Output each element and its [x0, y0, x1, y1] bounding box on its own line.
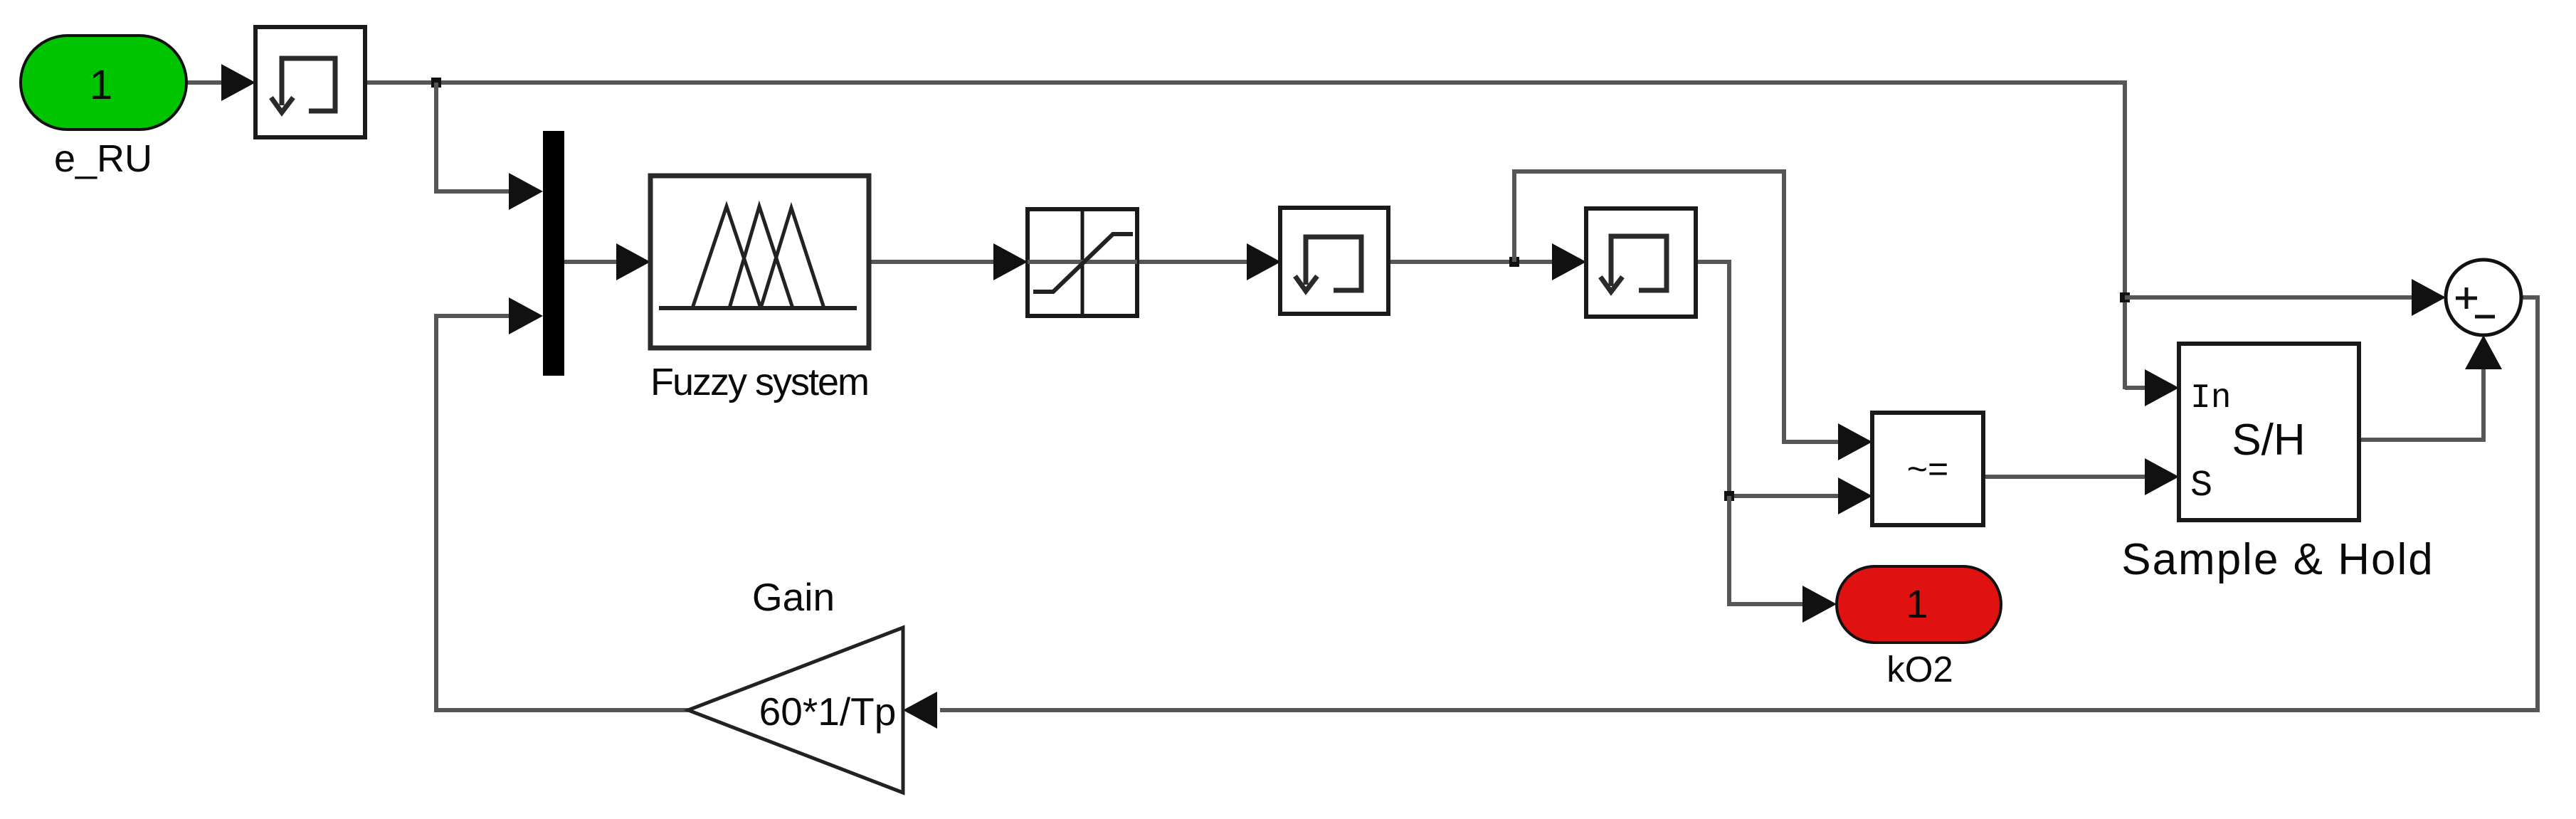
- wire: Sum output right, down and feedback to Gain input: [903, 297, 2538, 729]
- label Fuzzy system: [650, 361, 868, 403]
- wire: Gain output to Mux input 2: [436, 297, 688, 710]
- wire: Memory2 output to Memory3: [1388, 243, 1586, 280]
- node: junction on Memory3 output line: [1724, 491, 1734, 501]
- wire: e_RU output to Memory1: [185, 64, 255, 101]
- input port e_RU (green oval): [21, 36, 186, 130]
- svg-text:e_RU: e_RU: [54, 137, 152, 180]
- svg-text:Sample & Hold: Sample & Hold: [2121, 535, 2434, 584]
- svg-text:~=: ~=: [1907, 449, 1948, 489]
- svg-text:S: S: [2190, 465, 2212, 507]
- svg-text:60*1/Tp: 60*1/Tp: [759, 689, 897, 734]
- label Sample & Hold: [2121, 535, 2434, 584]
- wire: branch up over Memory3 to Relational Operator input 1: [1514, 171, 1872, 460]
- label Gain: [752, 575, 835, 619]
- wire: Saturation output to Memory2: [1137, 243, 1281, 280]
- wire: S/H output up to Sum minus input: [2359, 335, 2502, 440]
- label e_RU: [54, 137, 152, 180]
- block Saturation: [1028, 209, 1137, 316]
- wire: Mux output to Fuzzy system: [564, 243, 650, 280]
- svg-text:1: 1: [1906, 581, 1928, 626]
- label kO2: [1886, 649, 1953, 689]
- svg-text:1: 1: [90, 62, 112, 108]
- wire: Relational Operator output to S/H S input: [1983, 458, 2179, 495]
- mux: [543, 131, 564, 376]
- wire: Fuzzy system output to Saturation: [869, 243, 1028, 280]
- wire: junction to Sum plus input: [2125, 279, 2446, 316]
- block Memory1 (zero-order hold): [255, 27, 365, 137]
- block Memory2: [1280, 208, 1388, 314]
- block Gain 60*1/Tp: [688, 628, 903, 793]
- node: junction after Memory2: [1509, 257, 1519, 267]
- wire: Memory1 output main top line to right corner: [364, 83, 2125, 389]
- svg-text:S/H: S/H: [2232, 416, 2305, 465]
- wire: Memory3 output down to Relational Operator input 2: [1696, 262, 1872, 514]
- output port kO2 (red oval): [1837, 566, 2001, 643]
- svg-text:Fuzzy system: Fuzzy system: [650, 361, 868, 403]
- block Sum: [2446, 260, 2521, 335]
- block Relational Operator ~=: [1872, 413, 1983, 525]
- wire: junction down to kO2 output port: [1729, 496, 1837, 623]
- wire: branch down to Mux input 1: [436, 83, 543, 210]
- svg-text:kO2: kO2: [1886, 649, 1953, 689]
- svg-text:In: In: [2190, 379, 2232, 418]
- block Fuzzy system: [650, 176, 869, 348]
- wire: vertical down to S/H In input: [2125, 369, 2179, 406]
- node: junction on right vertical line: [2120, 292, 2130, 302]
- block S/H Sample and Hold: [2179, 344, 2359, 520]
- svg-text:Gain: Gain: [752, 575, 835, 619]
- block Memory3: [1586, 208, 1696, 317]
- node: junction after Memory1: [431, 78, 441, 88]
